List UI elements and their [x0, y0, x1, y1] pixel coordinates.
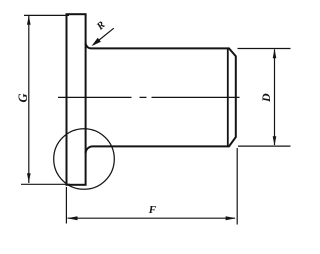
dimension F: arrowheads — [67, 216, 236, 220]
dimension D: extension lines — [238, 49, 291, 147]
chamfer inner edge line — [227, 49, 229, 146]
svg-text:F: F — [148, 204, 157, 216]
svg-text:G: G — [16, 93, 30, 102]
dimension D: arrowheads — [273, 49, 277, 146]
rivet head (flange) outline — [67, 14, 86, 185]
dimension G: arrowheads — [27, 15, 31, 183]
centerline (dash-dot axis) — [58, 96, 240, 98]
dimension F: extension lines — [66, 148, 237, 225]
detail circle — [54, 129, 115, 190]
svg-text:D: D — [259, 93, 273, 103]
dimension G: extension lines — [21, 15, 70, 184]
leader R with arrowhead — [93, 28, 113, 44]
rivet shank (body) outline with head fillets and chamfered end — [86, 43, 236, 153]
